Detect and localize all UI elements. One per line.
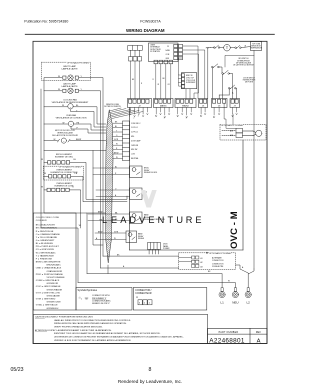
- svg-text:V: V: [139, 215, 146, 225]
- svg-text:CAUTION:DISCONNECT POWER BEFOR: CAUTION:DISCONNECT POWER BEFORE SERVICIN…: [35, 315, 93, 318]
- symbols box content: [78, 290, 112, 305]
- svg-text:FILTRATION: FILTRATION: [150, 50, 160, 53]
- svg-text:DOOR SWITCH: DOOR SWITCH: [243, 77, 255, 79]
- svg-text:A1: A1: [201, 257, 203, 260]
- svg-text:T = TAN/BRONZE: T = TAN/BRONZE: [36, 254, 55, 257]
- svg-text:NOTES DU REMOTE: NOTES DU REMOTE: [104, 106, 121, 108]
- svg-text:GY/O = GREY/ORANGE: GY/O = GREY/ORANGE: [36, 285, 61, 288]
- svg-text:Y = YELLOW/JAUNE: Y = YELLOW/JAUNE: [36, 236, 58, 239]
- wire labels below ui: [132, 78, 171, 86]
- svg-text:MDL SW: MDL SW: [131, 149, 138, 151]
- svg-text:Symbols/Symboles: Symbols/Symboles: [78, 290, 98, 292]
- svg-text:WIRING ERRORS CAN CAUSE IMPROP: WIRING ERRORS CAN CAUSE IMPROPER AND DAN…: [54, 322, 127, 325]
- svg-text:1: 1: [200, 116, 201, 118]
- broil element: [41, 154, 77, 164]
- svg-text:L2: L2: [247, 300, 251, 304]
- wire sensor down: [253, 51, 255, 270]
- wires row to fan box: [224, 103, 236, 128]
- svg-text:GRIS/NOIR: GRIS/NOIR: [47, 283, 59, 285]
- svg-text:INTERRUPTEUR: INTERRUPTEUR: [237, 60, 250, 62]
- svg-text:Rendered by Leadventure, Inc.: Rendered by Leadventure, Inc.: [118, 379, 182, 384]
- notes box: [33, 315, 207, 344]
- wire NEU feed W: [78, 281, 235, 288]
- svg-text:2: 2: [144, 303, 146, 305]
- wires ui bottom pins down: [156, 64, 171, 99]
- svg-text:IDENTIFIEZ TOUS LES FILS AVANT: IDENTIFIEZ TOUS LES FILS AVANT DE LES DE…: [54, 332, 161, 335]
- svg-text:ATTENTION:COUPEZ L ALIMENTATIO: ATTENTION:COUPEZ L ALIMENTATION AVANT D …: [35, 329, 112, 332]
- svg-text:8: 8: [149, 367, 152, 373]
- svg-text:GY = GREY/GRIS: GY = GREY/GRIS: [36, 249, 55, 251]
- svg-text:DE LA PORTE DU MOTEUR: DE LA PORTE DU MOTEUR: [52, 134, 78, 137]
- svg-text:3: 3: [139, 303, 141, 305]
- svg-text:OPTIONAL/OPTIONNEL: OPTIONAL/OPTIONNEL: [67, 61, 90, 64]
- svg-text:T: T: [167, 215, 173, 225]
- wire L1 feed BK: [87, 265, 222, 288]
- svg-text:N: N: [158, 215, 165, 225]
- svg-text:WIRING DIAGRAM: WIRING DIAGRAM: [126, 28, 165, 33]
- svg-text:GY: GY: [168, 84, 171, 86]
- optional dashed box (oven element): [44, 166, 84, 180]
- svg-text:2: 2: [134, 118, 135, 120]
- notes text: [35, 315, 184, 342]
- svg-text:A: A: [232, 92, 234, 95]
- connector J5: [199, 99, 208, 108]
- svg-text:BK/W: BK/W: [98, 211, 103, 213]
- ui external pin column J8: [179, 44, 183, 59]
- svg-text:COULEUR: COULEUR: [36, 220, 47, 222]
- svg-text:SENSOR DE: SENSOR DE: [251, 46, 260, 48]
- optional dashed box (alternate connection): [179, 253, 236, 269]
- watermark text: [102, 215, 202, 225]
- svg-text:BK: BK: [208, 271, 211, 273]
- svg-text:1: 1: [149, 303, 151, 305]
- wire bundle to alt box 2: [101, 262, 192, 268]
- svg-text:VIOLET/ORANGE: VIOLET/ORANGE: [47, 276, 66, 279]
- svg-text:MAIN2: MAIN2: [182, 105, 189, 108]
- door switch label: [243, 77, 256, 83]
- svg-text:GRIS/JAUNE: GRIS/JAUNE: [47, 294, 61, 297]
- stub pin chevrons: [130, 114, 238, 118]
- wires ui left connector down: [131, 61, 140, 99]
- svg-text:GRIS/BLEU: GRIS/BLEU: [47, 308, 59, 310]
- svg-text:ESEC 30: ESEC 30: [186, 75, 193, 77]
- wire cooling fan return: [74, 107, 106, 124]
- svg-text:L: L: [102, 215, 107, 225]
- symbols box: [76, 288, 132, 311]
- svg-text:VENTILATEUR DE CONVECTION: VENTILATEUR DE CONVECTION: [56, 116, 87, 119]
- svg-text:A: A: [242, 266, 244, 269]
- svg-text:CTRL FOUR: CTRL FOUR: [186, 80, 196, 82]
- svg-text:K: K: [73, 186, 75, 188]
- svg-text:CONV FN L2: CONV FN L2: [131, 123, 141, 125]
- optional oven element: [44, 170, 78, 178]
- svg-text:ELEMENT DE CUVE: ELEMENT DE CUVE: [55, 186, 75, 188]
- wire DLB relay: [96, 188, 130, 197]
- wire L2 feed: [236, 265, 255, 288]
- svg-text:MAIN1: MAIN1: [160, 105, 167, 108]
- terminal L1: [219, 288, 225, 305]
- brl switch S3: [222, 70, 233, 98]
- svg-text:OPTIONAL/OPTIONNEL: OPTIONAL/OPTIONNEL: [59, 165, 82, 168]
- conv fan motor M: [222, 130, 262, 136]
- svg-text:ELEMENT DE GRIL: ELEMENT DE GRIL: [55, 157, 74, 159]
- connector row stub wires below: [130, 108, 236, 116]
- wire lamp1 return: [79, 78, 103, 257]
- svg-text:W: W: [228, 281, 230, 283]
- oven fan motor: [56, 114, 87, 130]
- connector strip signal labels: [131, 123, 141, 160]
- svg-text:BK: BK: [163, 78, 166, 80]
- svg-text:T: T: [226, 46, 229, 50]
- stub labels below row: [129, 116, 232, 120]
- svg-text:3: 3: [138, 116, 139, 118]
- svg-text:W: W: [41, 159, 43, 161]
- svg-text:SUPERIEUR: SUPERIEUR: [186, 82, 196, 84]
- svg-text:L1 IN: L1 IN: [131, 154, 136, 156]
- part number text: [209, 331, 261, 345]
- connector J7: [230, 99, 240, 108]
- connector A box: [133, 288, 207, 311]
- svg-text:VERIFY PROPER OPERATION AFTER: VERIFY PROPER OPERATION AFTER SERVICING.: [54, 326, 103, 329]
- svg-text:G = GREEN/VERT: G = GREEN/VERT: [36, 240, 55, 242]
- svg-text:A3: A3: [201, 265, 203, 268]
- svg-text:05/23: 05/23: [11, 367, 24, 373]
- svg-text:W: W: [44, 173, 46, 175]
- svg-text:U: U: [176, 215, 183, 225]
- wire harness diagonals: [110, 108, 144, 119]
- header underline: [25, 33, 274, 35]
- svg-text:5V: 5V: [167, 46, 170, 48]
- wire door lock aux: [44, 150, 106, 152]
- svg-text:A2: A2: [201, 261, 203, 264]
- svg-text:R: R: [186, 215, 193, 225]
- svg-text:FCWS3027A: FCWS3027A: [140, 19, 161, 23]
- diagram frame: [33, 41, 267, 343]
- svg-text:PR = PURPLE/VIOLET: PR = PURPLE/VIOLET: [36, 246, 60, 248]
- svg-text:GND: GND: [166, 58, 170, 60]
- svg-text:R: R: [141, 83, 143, 85]
- svg-text:BRL SWITCH: BRL SWITCH: [239, 58, 250, 60]
- wire oven element return: [71, 176, 127, 201]
- conv fan connector: [230, 128, 243, 137]
- svg-text:NEUTRAL: NEUTRAL: [131, 157, 139, 160]
- svg-text:GRIS/ROUGE: GRIS/ROUGE: [47, 302, 62, 304]
- svg-text:POWER: POWER: [163, 248, 170, 250]
- svg-text:RELAIS DE GRIL: RELAIS DE GRIL: [144, 171, 157, 174]
- terminal L2: [245, 288, 251, 305]
- svg-text:R = RED/ROUGE: R = RED/ROUGE: [36, 231, 54, 233]
- alternate connection pins: [192, 252, 225, 268]
- wire cooling fan aux: [71, 110, 106, 127]
- wires ui to right: [179, 46, 205, 99]
- svg-text:OVC - M: OVC - M: [229, 211, 240, 249]
- svg-text:GY/Y = GREY/YELLOW: GY/Y = GREY/YELLOW: [36, 292, 61, 294]
- svg-text:BK = BLACK/NOIR: BK = BLACK/NOIR: [36, 224, 55, 227]
- motor door lock: [52, 130, 81, 143]
- svg-text:GY/BL = GREY/BLUE: GY/BL = GREY/BLUE: [36, 305, 58, 307]
- watermark logo: [141, 190, 157, 208]
- svg-text:GRIS/ORANGE: GRIS/ORANGE: [47, 288, 63, 291]
- svg-text:BL: BL: [74, 159, 77, 161]
- svg-text:DE PORTE: DE PORTE: [245, 82, 253, 84]
- wire FB feed down: [208, 48, 211, 99]
- svg-text:MDL: MDL: [131, 136, 134, 138]
- ui left connector P1: [128, 46, 143, 62]
- wire oven fan return: [74, 124, 106, 130]
- DSI module: [148, 243, 171, 255]
- svg-text:BR = BROWN/BRUN: BR = BROWN/BRUN: [36, 228, 57, 230]
- esec control board U2: [181, 73, 196, 89]
- svg-text:R: R: [153, 79, 155, 81]
- bake relay K3: [130, 212, 166, 224]
- connector MAIN2: [175, 99, 196, 108]
- wire secondary bus: [41, 89, 103, 283]
- svg-text:PR/O = PURPLE/ORANGE: PR/O = PURPLE/ORANGE: [36, 273, 64, 276]
- svg-text:NEU: NEU: [232, 300, 238, 304]
- svg-text:CL FN L2: CL FN L2: [131, 132, 138, 134]
- cooling fan motor: [52, 99, 90, 113]
- color code legend box: [33, 213, 76, 310]
- user interface board U1: [149, 43, 179, 64]
- svg-text:~: ~: [70, 123, 72, 126]
- svg-text:A22468801: A22468801: [209, 338, 245, 345]
- svg-text:FB: FB: [206, 48, 209, 50]
- wires esec down: [186, 89, 190, 99]
- connector A content: [135, 290, 152, 305]
- svg-text:DATA: DATA: [166, 49, 171, 52]
- wire oven fan aux: [71, 127, 106, 133]
- svg-text:1: 1: [232, 116, 233, 118]
- svg-text:CONNECTION: CONNECTION: [212, 260, 224, 262]
- door switch S4: [219, 85, 236, 98]
- wire broil element return: [70, 162, 127, 199]
- svg-text:O = ORANGE/ORANGE: O = ORANGE/ORANGE: [36, 233, 61, 236]
- svg-text:E: E: [148, 215, 154, 225]
- cavity lamp 2: [58, 82, 83, 93]
- oven control board OVC-M outline: [130, 108, 244, 251]
- connector J2: [128, 99, 152, 108]
- svg-text:E: E: [195, 215, 201, 225]
- color code legend text: [36, 217, 65, 310]
- svg-text:GY/R = GREY/RED: GY/R = GREY/RED: [36, 299, 56, 301]
- svg-text:LABEL ALL WIRES PRIOR TO DISCO: LABEL ALL WIRES PRIOR TO DISCONNECTION W…: [54, 319, 131, 322]
- svg-text:BRUN/BLANC: BRUN/BLANC: [47, 264, 62, 267]
- connector J6: [212, 99, 228, 108]
- wire broil relay: [93, 166, 130, 175]
- DLB relay K2: [130, 188, 149, 200]
- svg-text:CONNECTEUR: CONNECTEUR: [135, 293, 152, 295]
- connector strip pin wires: [113, 123, 123, 158]
- svg-text:P = PINK/ROSE: P = PINK/ROSE: [36, 259, 53, 261]
- svg-text:CONNECTOR:/: CONNECTOR:/: [135, 290, 151, 292]
- connector strip P8: [123, 121, 130, 161]
- svg-text:BL: BL: [115, 126, 117, 128]
- svg-text:LAMPE A CAVITE: LAMPE A CAVITE: [61, 67, 78, 70]
- svg-text:COLOR CODE / CODE: COLOR CODE / CODE: [36, 217, 60, 219]
- wire left feed bus: [44, 78, 106, 274]
- svg-text:RELAIS: RELAIS: [138, 237, 145, 240]
- svg-text:PART NUMBER: PART NUMBER: [219, 331, 239, 334]
- svg-text:L1: L1: [220, 300, 224, 304]
- svg-text:W: W: [41, 186, 43, 188]
- svg-text:AN1: AN1: [230, 129, 233, 132]
- svg-text:BK/W: BK/W: [98, 232, 103, 234]
- svg-text:REV.: REV.: [256, 332, 262, 334]
- svg-text:☉₁: ☉₁: [79, 296, 83, 300]
- svg-text:A: A: [123, 265, 125, 268]
- svg-text:O/BK = ORANGE/BLACK: O/BK = ORANGE/BLACK: [36, 267, 62, 270]
- remote dome note: [104, 104, 121, 108]
- svg-text:A: A: [136, 296, 138, 299]
- optional dashed box (cavity lamp): [42, 62, 91, 80]
- brl switch label: [233, 58, 254, 66]
- wire bake element return: [69, 190, 81, 228]
- top oven sensor: [250, 42, 262, 51]
- svg-text:COM: COM: [166, 54, 170, 56]
- svg-text:D'UNE AUTRE: D'UNE AUTRE: [212, 265, 224, 268]
- svg-text:A: A: [120, 215, 127, 225]
- thermal switch T: [224, 44, 231, 51]
- svg-text:CTRL TOP: CTRL TOP: [186, 77, 194, 79]
- wire labels left of bundle: [96, 211, 103, 240]
- svg-text:NUMERO DE PIN 'X': NUMERO DE PIN 'X': [92, 303, 110, 305]
- switch S1 (to sensor): [230, 44, 250, 48]
- svg-text:DOOR LAMP: DOOR LAMP: [131, 139, 141, 142]
- svg-text:D: D: [129, 215, 136, 225]
- svg-text:LAMPE A CAVITE: LAMPE A CAVITE: [61, 85, 78, 88]
- brl switch S2: [212, 55, 255, 98]
- svg-text:W = WHITE/BLANC: W = WHITE/BLANC: [36, 251, 56, 254]
- broil relay K1: [130, 166, 158, 178]
- svg-text:W: W: [158, 84, 160, 86]
- wire harness bundle: [106, 110, 114, 263]
- svg-text:LES ERREURS DE CONNECTION PEUV: LES ERREURS DE CONNECTION PEUVENT ENTRAI…: [54, 336, 184, 339]
- svg-text:BL = BLUE/BLEU: BL = BLUE/BLEU: [36, 243, 54, 245]
- svg-text:TOP OVEN: TOP OVEN: [252, 43, 261, 45]
- svg-text:1: 1: [213, 117, 214, 119]
- wire door lock return: [70, 140, 106, 142]
- wire bundle to alt box BK: [103, 254, 192, 257]
- svg-text:P: P: [77, 128, 79, 130]
- wire bake relay: [88, 211, 130, 221]
- svg-text:CL FN L1: CL FN L1: [131, 127, 138, 129]
- wire aux relay: [95, 231, 126, 240]
- svg-text:OPTIONAL/OPTIONNEL: OPTIONAL/OPTIONNEL: [221, 124, 244, 127]
- svg-text:BK/W: BK/W: [114, 152, 119, 154]
- svg-text:VERIFIEZ LE BON FONCTIONNEMENT: VERIFIEZ LE BON FONCTIONNEMENT DE L APPA…: [54, 339, 131, 342]
- svg-text:OPTIONAL/OPTIONNEL: OPTIONAL/OPTIONNEL: [209, 252, 232, 255]
- svg-text:Publication No: 5995734380: Publication No: 5995734380: [24, 19, 68, 23]
- svg-text:CONNECTEUR AVEC: CONNECTEUR AVEC: [92, 299, 111, 302]
- connector MAIN1: [154, 99, 174, 108]
- svg-text:OVEN FN: OVEN FN: [131, 145, 139, 147]
- svg-text:GY/BK = GREY/BLACK: GY/BK = GREY/BLACK: [36, 279, 60, 282]
- terminal NEU: [232, 288, 238, 305]
- optional dashed box (conv fan): [220, 125, 266, 141]
- part number table: [208, 328, 268, 343]
- svg-text:BK: BK: [132, 79, 135, 81]
- wire lamp2 return: [79, 91, 100, 268]
- svg-text:A: A: [257, 338, 261, 344]
- aux relay K4: [126, 231, 145, 243]
- svg-text:~: ~: [70, 106, 72, 109]
- connector strip wire labels: [114, 122, 119, 159]
- svg-text:BR/W = BROWN/WHITE: BR/W = BROWN/WHITE: [36, 262, 61, 264]
- oven bake element: [41, 183, 75, 192]
- svg-text:BL: BL: [115, 166, 117, 168]
- svg-text:PB: PB: [75, 173, 78, 175]
- svg-text:E: E: [111, 215, 117, 225]
- svg-text:3: 3: [164, 118, 165, 120]
- svg-text:INTERRUPTEUR: INTERRUPTEUR: [243, 79, 256, 81]
- fuse FB: [206, 45, 224, 49]
- cavity lamp 1: [58, 65, 83, 81]
- svg-text:~: ~: [63, 140, 65, 143]
- svg-text:ORANGE/NOIR: ORANGE/NOIR: [47, 270, 63, 273]
